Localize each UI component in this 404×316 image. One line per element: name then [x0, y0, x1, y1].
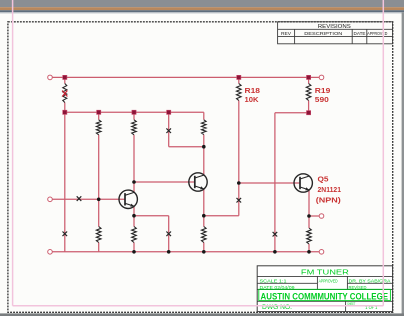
svg-text:FM TUNER: FM TUNER — [301, 268, 349, 277]
svg-text:APPROVED: APPROVED — [367, 31, 387, 36]
svg-text:R19: R19 — [315, 86, 331, 95]
svg-text:(NPN): (NPN) — [316, 196, 342, 205]
svg-text:590: 590 — [315, 95, 329, 104]
svg-text:DATE: DATE — [354, 31, 366, 36]
svg-text:REV: REV — [281, 31, 291, 36]
svg-text:REV/SED: REV/SED — [349, 285, 368, 290]
svg-text:2N1121: 2N1121 — [318, 185, 342, 194]
svg-text:R18: R18 — [245, 86, 261, 95]
svg-text:AUSTIN COMMMUNITY COLLEGE: AUSTIN COMMMUNITY COLLEGE — [261, 291, 389, 302]
svg-text:DR. BY SAB/GRA: DR. BY SAB/GRA — [349, 278, 391, 283]
svg-text:SCALE 1:1: SCALE 1:1 — [260, 278, 288, 283]
svg-text:Q5: Q5 — [318, 174, 329, 183]
svg-text:DESCRIPTION: DESCRIPTION — [304, 31, 342, 36]
svg-text:APPROVED: APPROVED — [319, 278, 339, 283]
svg-text:DWG NO.: DWG NO. — [262, 304, 292, 311]
svg-text:10K: 10K — [245, 95, 260, 104]
svg-text:DATE 02/04/09: DATE 02/04/09 — [260, 285, 296, 290]
svg-text:REVISIONS: REVISIONS — [318, 24, 351, 30]
